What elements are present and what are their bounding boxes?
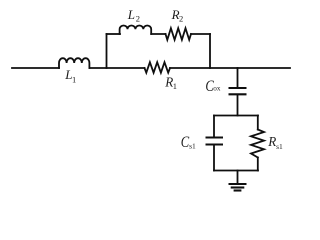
svg-text:2: 2 xyxy=(136,14,140,24)
svg-text:ox: ox xyxy=(213,85,221,93)
svg-text:s1: s1 xyxy=(276,142,283,151)
svg-text:C: C xyxy=(181,134,190,151)
svg-text:L: L xyxy=(127,7,135,22)
svg-text:2: 2 xyxy=(179,14,183,24)
svg-text:1: 1 xyxy=(173,81,177,91)
svg-text:s1: s1 xyxy=(189,142,196,151)
svg-text:1: 1 xyxy=(72,75,76,85)
